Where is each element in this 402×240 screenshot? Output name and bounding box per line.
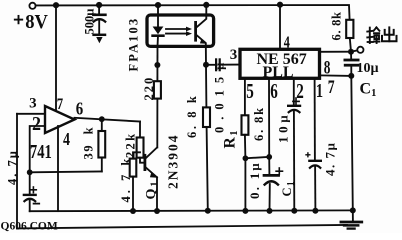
node R1 bottom — [243, 155, 249, 161]
svg-text:741: 741 — [30, 141, 52, 162]
svg-text:4. 7µ: 4. 7µ — [6, 149, 20, 185]
node pin7/cap — [348, 73, 354, 79]
wire pin7 — [321, 74, 352, 77]
capacitor C3 10u (output coupling) — [350, 52, 352, 60]
power terminal +8V — [29, 3, 35, 9]
phototransistor inside optocoupler — [194, 22, 197, 40]
pin 2 / capacitor 10u — [293, 79, 295, 105]
svg-text:4: 4 — [284, 34, 291, 52]
svg-text:10µ: 10µ — [357, 61, 379, 76]
wire ground bus — [30, 209, 353, 212]
svg-text:8V: 8V — [25, 12, 48, 34]
svg-text:22k: 22k — [124, 132, 138, 158]
svg-text:PLL: PLL — [262, 64, 293, 81]
transistor Q1 2N3904 — [143, 155, 146, 169]
pin 5 / resistor R1 — [244, 79, 246, 116]
svg-text:2N3904: 2N3904 — [166, 134, 181, 190]
optocoupler U2 FPA103 box — [147, 15, 214, 46]
resistor 220 — [154, 81, 161, 98]
svg-text:3: 3 — [230, 47, 238, 63]
svg-text:6. 8 k: 6. 8 k — [185, 94, 199, 138]
wire feedback — [30, 170, 102, 173]
svg-text:4. 7µ: 4. 7µ — [323, 142, 338, 177]
capacitor C1 0.1u — [268, 157, 270, 174]
node bus junctions — [130, 207, 356, 214]
node 741 pin2 feedback junction — [27, 169, 33, 175]
svg-text:2: 2 — [32, 113, 41, 135]
node FPA103 right pin — [203, 62, 209, 68]
svg-text:6. 8k: 6. 8k — [330, 11, 344, 40]
svg-text:0. 1µ: 0. 1µ — [247, 161, 262, 199]
svg-text:0.015µ: 0.015µ — [213, 56, 227, 133]
node output — [348, 49, 354, 55]
wire joining — [245, 157, 269, 158]
capacitor 500u — [98, 5, 100, 14]
svg-text:Q606.COM: Q606.COM — [1, 220, 58, 232]
wire pin8 — [321, 51, 351, 53]
svg-text:6: 6 — [270, 80, 278, 103]
node pin6 bottom — [266, 154, 272, 160]
ground (below 500u) — [94, 34, 105, 37]
wire 741 pin3 input — [17, 113, 45, 115]
svg-text:6: 6 — [76, 100, 83, 119]
node FPA103 left pin — [154, 62, 160, 68]
node top bus junctions — [53, 2, 283, 9]
wire left ground drop — [16, 114, 18, 229]
svg-text:4: 4 — [63, 131, 70, 150]
svg-text:4. 7 k: 4. 7 k — [119, 156, 133, 203]
terminal output — [354, 49, 358, 52]
LED inside optocoupler — [157, 5, 159, 27]
resistor 39k — [101, 119, 103, 131]
svg-text:2: 2 — [296, 80, 304, 103]
ground (main) — [352, 210, 354, 220]
wire 741 pin4 — [57, 126, 59, 211]
svg-text:6. 8k: 6. 8k — [252, 106, 266, 141]
svg-text:5: 5 — [246, 80, 254, 103]
capacitor 0.015u — [206, 64, 215, 66]
pin 1 / capacitor 4.7u — [314, 79, 316, 160]
resistor 22k — [139, 122, 141, 138]
svg-text:10µ: 10µ — [276, 112, 291, 143]
node output/39k junction — [99, 116, 105, 122]
wire 741 output pin6 — [75, 118, 141, 122]
wire pin4 to +8V — [279, 5, 281, 49]
wire to ground — [351, 76, 353, 211]
wire top supply rail — [36, 5, 350, 20]
wire lower ground rail — [17, 225, 347, 229]
wire to ground bus — [244, 158, 246, 211]
wire 741 pin7 to +8V — [55, 5, 57, 110]
svg-text:FPA103: FPA103 — [127, 17, 141, 72]
svg-text:500µ: 500µ — [83, 9, 97, 35]
svg-text:7: 7 — [328, 76, 335, 98]
capacitor 4.7u (741 feedback) — [32, 187, 34, 193]
label shuchu (output) — [367, 27, 379, 43]
resistor 6.8k (emitter load) — [205, 65, 207, 108]
pin 6 wire — [268, 79, 270, 157]
wire 741 pin2 — [30, 126, 45, 172]
svg-text:39 k: 39 k — [82, 126, 96, 160]
resistor 4.7k — [133, 152, 140, 158]
IC NE567 PLL — [240, 49, 320, 78]
svg-text:1: 1 — [316, 79, 323, 102]
resistor 6.8k (output pull-up) — [346, 20, 353, 38]
svg-text:220: 220 — [142, 76, 156, 101]
svg-text:7: 7 — [57, 96, 63, 114]
svg-text:3: 3 — [29, 96, 36, 112]
light arrows — [166, 28, 187, 30]
op-amp U1 741 — [45, 106, 75, 133]
